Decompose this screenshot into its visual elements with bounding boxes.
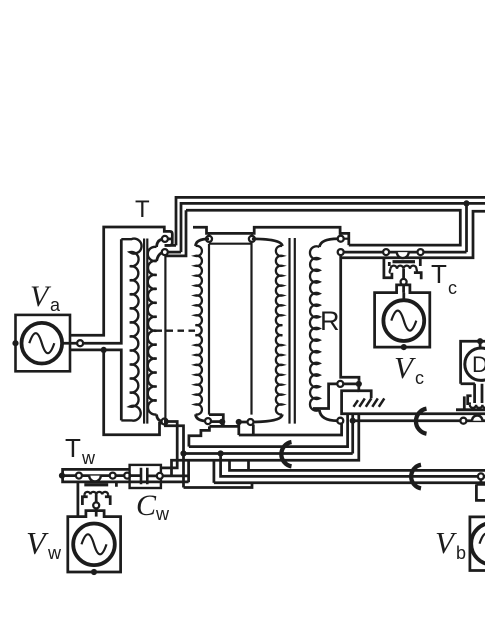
node T bottom tap bbox=[162, 419, 168, 425]
wire staircase w3 tap down bbox=[189, 422, 239, 447]
junction dot Tw left bbox=[59, 473, 65, 479]
svg-text:w: w bbox=[155, 504, 170, 524]
wire D line bbox=[356, 419, 485, 422]
screen dashed link bbox=[156, 330, 196, 332]
svg-text:R: R bbox=[320, 306, 340, 336]
wire busB3 bbox=[172, 414, 359, 476]
junction dot D top bbox=[477, 338, 483, 344]
source Va circle bbox=[22, 323, 63, 364]
svg-text:T: T bbox=[65, 433, 81, 463]
wire top bus 1 bbox=[176, 197, 485, 245]
wire R bottom arc bbox=[319, 410, 337, 421]
wire screen box left lead bbox=[209, 415, 223, 427]
node Tc conn mid bbox=[383, 249, 389, 255]
node Tw conn 1 bbox=[76, 473, 82, 479]
svg-text:w: w bbox=[81, 448, 96, 468]
wire IVD top bar bbox=[193, 227, 349, 245]
wire w3 bottom arc bbox=[196, 414, 209, 421]
source Vc sine bbox=[391, 311, 416, 331]
Tw screen left bbox=[78, 482, 88, 517]
source Vc circle bbox=[383, 300, 424, 341]
choke hop 3 bbox=[416, 409, 427, 434]
winding T secondary bbox=[148, 247, 157, 415]
wire w3tap bar bbox=[211, 420, 222, 423]
Vb transformer box bbox=[476, 479, 485, 501]
svg-text:c: c bbox=[448, 278, 457, 298]
wire busB1 bbox=[189, 414, 348, 447]
wire return line to D bbox=[342, 391, 485, 414]
Tw screen right bbox=[105, 482, 117, 505]
junction dot w4 tap bbox=[236, 419, 242, 425]
junction dot Va low shield bbox=[101, 347, 107, 353]
Tc secondary winding bbox=[391, 266, 417, 273]
node IVD tap right bbox=[249, 236, 255, 242]
Tc screen left bbox=[384, 258, 392, 278]
winding R bbox=[310, 246, 319, 410]
wire R winding lead bbox=[313, 384, 359, 409]
source Vb circle bbox=[471, 523, 485, 565]
source Vb box bbox=[470, 517, 485, 571]
wire D stem bbox=[475, 384, 482, 403]
junction dot bus2 to Tc feed bbox=[463, 200, 469, 206]
core T bbox=[144, 239, 147, 424]
node Va output connector bbox=[77, 340, 83, 346]
source Vb sine bbox=[480, 534, 485, 554]
Tw secondary winding bbox=[85, 492, 109, 494]
wire Tw shield hairpin bbox=[63, 469, 189, 482]
svg-text:D: D bbox=[472, 352, 485, 377]
source Va sine bbox=[29, 333, 54, 353]
wire bus2 drop to Tc line bbox=[465, 203, 468, 252]
wire Tw secondary lead bbox=[95, 494, 98, 516]
source Vw box bbox=[68, 511, 121, 572]
wire bus1 link bbox=[165, 244, 176, 247]
node T tap 2 bbox=[162, 249, 168, 255]
wire bridge left bbox=[187, 460, 190, 482]
svg-text:T: T bbox=[431, 259, 447, 289]
svg-text:w: w bbox=[47, 543, 62, 563]
svg-text:T: T bbox=[135, 196, 150, 223]
node Tc conn left bbox=[338, 249, 344, 255]
junction dot ground node bbox=[356, 381, 362, 387]
wire Tw line bbox=[62, 474, 141, 477]
node w3 bottom tap bbox=[205, 418, 211, 424]
wire top bus 2 bbox=[181, 203, 485, 252]
wire Rtap stub bbox=[344, 238, 349, 240]
screen box IVD bbox=[209, 244, 252, 415]
wire Vc top lead bbox=[402, 293, 405, 301]
wire top bus 3 hairpin bbox=[186, 210, 460, 245]
wire Tc line bbox=[344, 251, 467, 254]
choke hop 2 bbox=[411, 465, 421, 489]
source Vw circle bbox=[73, 524, 115, 566]
detector transformer winding bbox=[470, 405, 485, 408]
wire busB2 bbox=[184, 414, 353, 454]
wire w2 bottom arc bbox=[157, 414, 165, 421]
core IVD bbox=[290, 238, 295, 424]
wire D top lead bbox=[479, 341, 482, 348]
source Vc box bbox=[375, 285, 430, 347]
junction dot busB left bbox=[180, 450, 186, 456]
Tc core bar bbox=[393, 260, 416, 263]
Tc primary dip bbox=[397, 252, 409, 258]
wire Tc secondary lead bbox=[402, 269, 405, 293]
winding IVD left bbox=[196, 246, 202, 415]
wire ground link bbox=[359, 384, 371, 398]
svg-text:V: V bbox=[394, 350, 416, 385]
svg-text:V: V bbox=[435, 525, 457, 560]
wire trio top bbox=[230, 460, 485, 470]
svg-text:c: c bbox=[415, 368, 424, 388]
wire w3 top arc bbox=[196, 239, 210, 246]
wire tapL stub bbox=[208, 233, 210, 236]
node R bottom tap bbox=[337, 418, 343, 424]
source Va box bbox=[16, 315, 71, 371]
wire Va low bbox=[69, 350, 121, 421]
junction dot R bottom bbox=[350, 418, 356, 424]
wire w4 tap bar bbox=[238, 421, 248, 424]
detector transformer core bbox=[456, 408, 485, 411]
wire w4 top arc bbox=[252, 239, 282, 246]
node Tc conn right bbox=[418, 249, 424, 255]
node D connector bbox=[460, 418, 466, 424]
wire Cw output bbox=[147, 475, 188, 478]
wire tap2 stub bbox=[168, 251, 181, 254]
wire screen drop bbox=[165, 419, 183, 488]
wire T bottom tap to Cw screen bbox=[161, 422, 177, 468]
node Tc lead connector bbox=[401, 279, 407, 285]
node Tw lead connector bbox=[93, 502, 99, 508]
wire R top arc bbox=[319, 239, 338, 247]
node Tw conn 2 bbox=[110, 473, 116, 479]
svg-text:b: b bbox=[456, 543, 466, 563]
wire w2 tap arc bbox=[157, 252, 165, 261]
wire trio middle bbox=[221, 454, 485, 477]
detector D circle bbox=[465, 348, 485, 380]
choke hop 1 bbox=[281, 442, 291, 466]
wire w4 bottom arc bbox=[251, 414, 283, 422]
wire bridge right bbox=[213, 460, 216, 483]
dot Vc bottom bbox=[401, 344, 407, 350]
wire w4-R link bbox=[239, 422, 342, 435]
node Vb connector bbox=[478, 473, 484, 479]
svg-text:V: V bbox=[26, 525, 49, 561]
svg-text:C: C bbox=[136, 489, 157, 522]
wire tapR stub bbox=[251, 233, 253, 236]
node R top tap bbox=[338, 236, 344, 242]
wire shield bottom route bbox=[104, 350, 162, 435]
dot Vw bottom bbox=[91, 569, 97, 575]
node T tap 1 bbox=[162, 236, 168, 242]
dot Va left bbox=[12, 340, 18, 346]
screen T vertical bbox=[164, 255, 166, 418]
wire trio bottom bbox=[214, 481, 485, 484]
wire D line bump bbox=[472, 416, 482, 421]
detector D box bbox=[461, 341, 485, 384]
node IVD tap left bbox=[206, 236, 212, 242]
capacitor Cw box bbox=[130, 465, 161, 488]
svg-text:V: V bbox=[30, 280, 52, 313]
svg-text:a: a bbox=[50, 295, 61, 315]
junction dot busB right bbox=[218, 450, 224, 456]
wire Va shield top bbox=[69, 227, 172, 335]
wire under-Tc return bbox=[165, 210, 485, 258]
node R tap connector bbox=[337, 381, 343, 387]
wire Va hot bbox=[62, 239, 121, 343]
detector screen bbox=[464, 396, 471, 410]
wire R right lead bbox=[341, 255, 359, 381]
wire busE bbox=[184, 483, 253, 488]
node Cw connector bbox=[157, 473, 163, 479]
capacitor Cw plates bbox=[141, 468, 147, 485]
junction dot w3 tap bbox=[219, 419, 225, 425]
wire w2 top arc bbox=[157, 239, 165, 247]
ground bbox=[354, 398, 385, 406]
node Tw conn 3 bbox=[124, 473, 130, 479]
node w4 bottom tap bbox=[248, 419, 254, 425]
wire tap1 stub bbox=[168, 238, 173, 241]
Tw core bar bbox=[84, 483, 108, 486]
Tc screen right bbox=[414, 258, 421, 280]
winding T primary bbox=[121, 239, 141, 421]
winding IVD right bbox=[276, 246, 282, 415]
source Vw sine bbox=[82, 534, 107, 554]
Tw primary dip bbox=[89, 476, 101, 482]
